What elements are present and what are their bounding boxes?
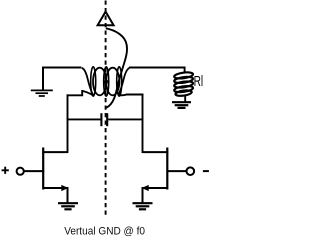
Q1 drain wire <box>42 151 67 153</box>
inductor L1: left end strand from top wire <box>82 68 93 95</box>
wire: top-left corner drop to ground <box>42 67 44 90</box>
node axis: vertical dashed centerline (virtual ground axis) <box>105 1 107 218</box>
terminal +: open circle <box>17 168 24 175</box>
Q2 source wire with arrow <box>148 187 167 189</box>
wire: left tank rail <box>67 94 69 153</box>
ground G4 (under Rl, bold bars) <box>172 102 191 108</box>
wire: top horizontal wire, right segment to Rl <box>129 67 186 69</box>
Q1 source wire with arrow <box>44 187 63 189</box>
ground G2 (under Q1, bold bars) <box>58 203 78 209</box>
inductor L1: right bottom valley strand <box>119 94 126 97</box>
wire: coil left tap stub down <box>67 90 83 95</box>
node marker: open triangle arrow at top of axis <box>98 12 114 26</box>
node arrow: filled arrowhead pointing down at center tap <box>103 80 109 86</box>
transistor Q2 (right FET) channel bar <box>166 148 168 190</box>
svg-text:Rl: Rl <box>194 74 204 90</box>
wire: coil right tap stub <box>126 94 144 96</box>
ground G1 (top-left, thin bars) <box>31 90 53 96</box>
wire: right tank rail <box>142 94 144 153</box>
capacitor C1: plates <box>100 113 102 126</box>
Q1 gate wire <box>24 170 45 172</box>
terminal +: plus sign <box>2 167 9 174</box>
capacitor C1: left wire <box>67 118 101 120</box>
inductor L1: middle loop turns (center-tapped coil) <box>93 68 119 96</box>
Q2 drain wire <box>143 151 169 153</box>
wire: curved arc from axis top to tank center <box>106 28 127 107</box>
inductor L1: right end strand to top wire <box>118 68 129 95</box>
resistor Rl: coiled spring style <box>184 67 186 74</box>
terminal -: open circle <box>187 167 195 175</box>
transistor Q1 (left FET) channel bar <box>42 148 44 190</box>
inductor L1: left bottom valley strand <box>82 91 93 95</box>
terminal -: minus sign <box>203 170 209 172</box>
capacitor C1: right wire <box>108 118 143 120</box>
wire: top horizontal wire, left segment <box>43 67 82 69</box>
svg-text:Vertual GND @ f0: Vertual GND @ f0 <box>64 225 145 237</box>
ground G3 (under Q2, bold bars) <box>133 203 153 209</box>
inductor L1: crossing spindle loops <box>91 67 122 96</box>
Q2 gate wire <box>167 170 187 172</box>
